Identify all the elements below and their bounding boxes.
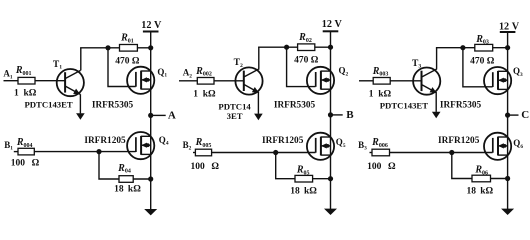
svg-text:12 V: 12 V bbox=[499, 22, 520, 33]
svg-text:PDTC143ET: PDTC143ET bbox=[380, 101, 428, 111]
svg-text:3ET: 3ET bbox=[227, 111, 243, 121]
wire: gate node down and right to R06, block 3 bbox=[452, 153, 472, 179]
wire: top node down and right to Q2 gate, block 2 bbox=[287, 47, 316, 86]
wire: R04 to source rail, block 1 bbox=[133, 178, 151, 180]
n-channel MOSFET Q6 IRFR1205 bbox=[484, 133, 511, 160]
resistor R001 1 kOhm, block 1 bbox=[18, 77, 35, 84]
junction: gate branch node on top wire, block 2 bbox=[284, 45, 289, 50]
svg-text:100 Ω: 100 Ω bbox=[367, 162, 396, 172]
svg-text:18 kΩ: 18 kΩ bbox=[114, 185, 141, 195]
svg-text:1 kΩ: 1 kΩ bbox=[14, 88, 37, 98]
svg-text:IRFR1205: IRFR1205 bbox=[84, 136, 126, 146]
wire: 12V rail down through Q3 and Q6 to ground, block 3 bbox=[507, 32, 509, 210]
wire: 12V rail down through Q2 and Q5 to ground, block 2 bbox=[330, 31, 332, 209]
svg-text:470 Ω: 470 Ω bbox=[294, 56, 319, 66]
svg-text:IRFR5305: IRFR5305 bbox=[274, 101, 316, 111]
resistor R004 100 Ohm, block 1 bbox=[18, 148, 34, 155]
svg-text:470 Ω: 470 Ω bbox=[115, 56, 140, 66]
junction: pulldown branch node on gate wire, block 3 bbox=[449, 150, 454, 155]
wire: input A2 to R002, block 2 bbox=[179, 80, 197, 82]
svg-text:18 kΩ: 18 kΩ bbox=[466, 187, 493, 197]
ground (down arrow) at bottom of block 3 bbox=[501, 209, 514, 215]
junction: R06 to rail, block 3 bbox=[505, 176, 510, 181]
wire: R002 to T2 base, block 2 bbox=[214, 80, 244, 82]
wire: input B3 to R006, block 3 bbox=[370, 152, 373, 154]
junction: pulldown branch node on gate wire, block 1 bbox=[96, 149, 101, 154]
svg-text:IRFR1205: IRFR1205 bbox=[438, 136, 480, 146]
wire: node A stub bbox=[151, 114, 166, 116]
wire: R005 to Q5 gate, block 2 bbox=[212, 152, 316, 154]
junction: gate branch node on top wire, block 3 bbox=[460, 45, 465, 50]
svg-text:C: C bbox=[521, 109, 529, 121]
svg-text:PDTC14: PDTC14 bbox=[218, 101, 251, 111]
svg-text:1 kΩ: 1 kΩ bbox=[369, 89, 392, 99]
wire: T2 emitter down to ground, block 2 bbox=[257, 93, 259, 114]
p-channel MOSFET Q1 IRFR5305 bbox=[127, 67, 154, 94]
resistor R02 470 Ohm, block 2 bbox=[298, 44, 315, 51]
junction: R03 to 12V rail, block 3 bbox=[505, 45, 510, 50]
junction: R02 to 12V rail, block 2 bbox=[328, 45, 333, 50]
wire: R05 to source rail, block 2 bbox=[313, 178, 331, 180]
wire: T2 collector up to top rail, block 2 bbox=[258, 47, 260, 69]
transistor T2 PDTC143ET (NPN) bbox=[235, 67, 262, 94]
wire: input B1 to R004, block 1 bbox=[14, 151, 18, 153]
wire: T3 collector node to R03 to 12V rail, block 3 bbox=[436, 47, 508, 49]
svg-text:A: A bbox=[168, 110, 176, 122]
wire: gate node down and right to R05, block 2 bbox=[276, 153, 295, 179]
p-channel MOSFET Q2 IRFR5305 bbox=[307, 67, 334, 94]
ground (down arrow) at bottom of block 1 bbox=[144, 209, 157, 215]
wire: top node down and right to Q3 gate, block 3 bbox=[463, 48, 493, 87]
svg-text:IRFR5305: IRFR5305 bbox=[92, 101, 134, 111]
svg-text:100 Ω: 100 Ω bbox=[11, 159, 40, 169]
p-channel MOSFET Q3 IRFR5305 bbox=[484, 67, 511, 94]
transistor T3 PDTC143ET (NPN) bbox=[413, 68, 440, 95]
junction: R05 to rail, block 2 bbox=[328, 176, 333, 181]
wire: R001 to T1 base, block 1 bbox=[35, 80, 65, 82]
n-channel MOSFET Q4 IRFR1205 bbox=[127, 132, 154, 159]
svg-text:18 kΩ: 18 kΩ bbox=[290, 187, 317, 197]
wire: T3 collector up to top rail, block 3 bbox=[436, 48, 438, 69]
resistor R05 18 kOhm, block 2 bbox=[295, 175, 313, 182]
resistor R005 100 Ohm, block 2 bbox=[195, 149, 211, 156]
wire: R004 to Q4 gate, block 1 bbox=[34, 151, 135, 153]
resistor R006 100 Ohm, block 3 bbox=[372, 149, 390, 156]
svg-text:100 Ω: 100 Ω bbox=[191, 162, 220, 172]
wire: node B stub bbox=[331, 114, 343, 116]
ground (down arrow) under T1 emitter bbox=[76, 113, 85, 120]
svg-text:12 V: 12 V bbox=[322, 19, 343, 30]
wire: input A1 to R001, block 1 bbox=[4, 80, 19, 82]
wire: T2 collector node to R02 to 12V rail, block 2 bbox=[258, 46, 330, 48]
resistor R06 18 kOhm, block 3 bbox=[472, 175, 491, 182]
node B: junction dot on rail bbox=[328, 112, 333, 117]
ground (down arrow) under T2 emitter bbox=[254, 114, 263, 121]
svg-text:PDTC143ET: PDTC143ET bbox=[24, 100, 72, 110]
svg-text:470 Ω: 470 Ω bbox=[470, 56, 495, 66]
resistor R03 470 Ohm, block 3 bbox=[475, 44, 493, 51]
resistor R04 18 kOhm, block 1 bbox=[119, 176, 133, 183]
svg-text:1 kΩ: 1 kΩ bbox=[193, 89, 216, 99]
wire: R003 to T3 base, block 3 bbox=[390, 80, 421, 82]
wire: input B2 to R005, block 2 bbox=[193, 152, 195, 154]
n-channel MOSFET Q5 IRFR1205 bbox=[307, 133, 334, 160]
wire: R06 to source rail, block 3 bbox=[491, 178, 508, 180]
wire: gate node down and right to R04, block 1 bbox=[99, 152, 119, 179]
wire: top node down and right to Q1 gate, block 1 bbox=[108, 48, 136, 87]
wire: node C stub bbox=[508, 114, 519, 116]
wire: 12V rail down through Q1 and Q4 to ground, block 1 bbox=[150, 32, 152, 211]
wire: T1 collector up to top rail, block 1 bbox=[80, 48, 82, 71]
svg-text:B: B bbox=[346, 109, 354, 121]
svg-text:IRFR5305: IRFR5305 bbox=[440, 101, 482, 111]
svg-text:IRFR1205: IRFR1205 bbox=[262, 136, 304, 146]
wire: T1 emitter down to ground, block 1 bbox=[79, 94, 81, 113]
wire: R006 to Q6 gate, block 3 bbox=[390, 152, 493, 154]
transistor T1 PDTC143ET (NPN) bbox=[57, 69, 84, 96]
junction: R04 to rail, block 1 bbox=[148, 176, 153, 181]
wire: T3 emitter down to ground, block 3 bbox=[435, 93, 437, 112]
wire: input A3 to R003, block 3 bbox=[359, 80, 373, 82]
node C: junction dot on rail bbox=[505, 113, 510, 118]
resistor R002 1 kOhm, block 2 bbox=[197, 78, 214, 85]
resistor R01 470 Ohm, block 1 bbox=[120, 45, 138, 52]
wire: T1 collector node to R01 to 12V rail, block 1 bbox=[80, 47, 151, 49]
junction: gate branch node on top wire, block 1 bbox=[105, 45, 110, 50]
node A: junction dot on rail bbox=[148, 113, 153, 118]
svg-text:12 V: 12 V bbox=[141, 20, 162, 31]
junction: R01 to 12V rail, block 1 bbox=[148, 45, 153, 50]
ground (down arrow) at bottom of block 2 bbox=[324, 209, 337, 215]
ground (down arrow) under T3 emitter bbox=[432, 112, 441, 119]
junction: pulldown branch node on gate wire, block 2 bbox=[273, 150, 278, 155]
resistor R003 1 kOhm, block 3 bbox=[373, 78, 390, 85]
